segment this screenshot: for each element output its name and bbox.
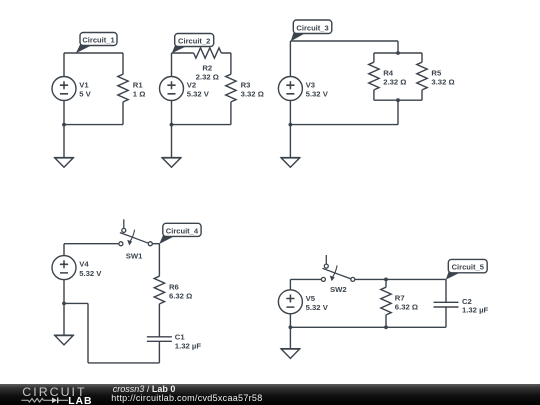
svg-text:3.32 Ω: 3.32 Ω: [431, 77, 454, 86]
svg-text:6.32 Ω: 6.32 Ω: [395, 302, 418, 311]
svg-text:C1: C1: [175, 333, 186, 342]
svg-text:5.32 V: 5.32 V: [79, 269, 102, 278]
svg-text:Circuit_5: Circuit_5: [452, 263, 484, 272]
svg-text:SW1: SW1: [126, 252, 143, 261]
svg-text:C2: C2: [462, 297, 472, 306]
svg-text:V4: V4: [79, 260, 89, 269]
svg-text:Circuit_4: Circuit_4: [166, 226, 199, 235]
svg-text:Circuit_1: Circuit_1: [82, 35, 114, 44]
svg-text:SW2: SW2: [330, 285, 347, 294]
svg-text:5.32 V: 5.32 V: [306, 303, 329, 312]
svg-text:LAB: LAB: [68, 396, 92, 405]
svg-text:R2: R2: [202, 64, 212, 73]
svg-text:5.32 V: 5.32 V: [187, 90, 210, 99]
svg-text:5.32 V: 5.32 V: [306, 90, 329, 99]
svg-text:1.32 µF: 1.32 µF: [462, 306, 489, 315]
svg-text:R6: R6: [169, 283, 179, 292]
svg-text:5 V: 5 V: [79, 90, 91, 99]
svg-text:V2: V2: [187, 81, 196, 90]
svg-text:http://circuitlab.com/cvd5xcaa: http://circuitlab.com/cvd5xcaa57r58: [111, 393, 262, 403]
svg-text:V1: V1: [79, 81, 89, 90]
svg-text:R3: R3: [241, 81, 251, 90]
svg-text:R5: R5: [431, 69, 442, 78]
svg-text:2.32 Ω: 2.32 Ω: [383, 77, 406, 86]
svg-text:1 Ω: 1 Ω: [133, 89, 146, 98]
svg-text:R4: R4: [383, 69, 394, 78]
svg-text:6.32 Ω: 6.32 Ω: [169, 291, 192, 300]
svg-text:Circuit_3: Circuit_3: [296, 23, 328, 32]
svg-text:2.32 Ω: 2.32 Ω: [196, 72, 219, 81]
svg-text:1.32 µF: 1.32 µF: [175, 341, 202, 350]
svg-text:3.32 Ω: 3.32 Ω: [241, 89, 264, 98]
svg-text:V5: V5: [306, 294, 316, 303]
svg-text:R1: R1: [133, 81, 144, 90]
svg-text:Circuit_2: Circuit_2: [178, 36, 210, 45]
svg-text:R7: R7: [395, 294, 405, 303]
svg-text:V3: V3: [306, 81, 315, 90]
